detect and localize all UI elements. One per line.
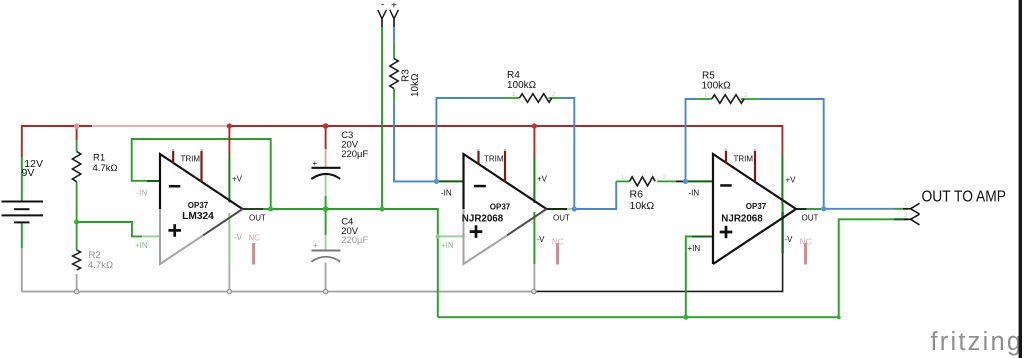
- wire op2 OUT to R6 blue: [574, 181, 616, 209]
- minus input symbol: [169, 185, 181, 188]
- svg-text:OUT TO AMP: OUT TO AMP: [922, 188, 1007, 205]
- svg-text:-V: -V: [537, 235, 546, 244]
- svg-text:+V: +V: [537, 175, 548, 184]
- svg-text:NC: NC: [800, 238, 812, 247]
- svg-text:10kΩ: 10kΩ: [410, 73, 421, 97]
- wire C4 bottom gray: [325, 263, 327, 292]
- wire op1 +V: [228, 126, 230, 156]
- wire R2 bottom lead gray: [76, 274, 78, 292]
- node op2 +V on red bus: [532, 123, 537, 128]
- wire minus connector pin down to out line: [381, 19, 383, 27]
- resistor R5: [712, 95, 744, 104]
- wire ground gray bus: [22, 291, 534, 293]
- node op3 -IN blue: [683, 179, 688, 184]
- svg-text:4.7kΩ: 4.7kΩ: [88, 260, 113, 271]
- node ground op2 -V (open gray): [532, 289, 536, 293]
- wire ground black segment to op3 -V: [533, 254, 782, 292]
- node lower bus op3 +IN: [683, 315, 688, 320]
- wire op3 -V dark green stub: [781, 212, 783, 254]
- node ground op1 -V (open gray): [227, 289, 231, 293]
- svg-text:10kΩ: 10kΩ: [630, 200, 655, 212]
- svg-text:R1: R1: [93, 152, 105, 163]
- wire op2 OUT stub: [547, 208, 568, 210]
- resistor R3: [390, 59, 398, 89]
- op-amp U3 NJR2068: [688, 149, 819, 265]
- svg-text:-IN: -IN: [689, 189, 700, 198]
- svg-text:TRIM: TRIM: [484, 155, 504, 164]
- wire op1 -V: [228, 213, 230, 264]
- svg-text:TRIM: TRIM: [181, 155, 201, 164]
- op1 +IN pin stub: [142, 235, 161, 237]
- node R1 bottom green: [74, 220, 79, 225]
- wire battery positive green segment: [21, 157, 23, 201]
- wire lower green bus: [438, 316, 839, 318]
- wire battery negative: [21, 223, 23, 248]
- battery label 12V 9V: [22, 158, 43, 179]
- wire op3 +V green segment: [781, 155, 783, 204]
- resistor R2: [73, 250, 81, 270]
- right edge border bar: [1019, 0, 1022, 358]
- svg-text:OUT: OUT: [249, 214, 266, 223]
- resistor R6: [630, 177, 656, 186]
- wire pin2 green to lower bus: [839, 219, 908, 317]
- plus input symbol: [168, 224, 181, 237]
- node R1 top (pale): [74, 123, 79, 128]
- R5 pin numbers: [704, 93, 748, 99]
- node C3/C4: [323, 206, 329, 212]
- svg-text:+V: +V: [786, 176, 797, 185]
- wire R1 leads green: [76, 141, 78, 152]
- op2 +IN pin stub: [438, 235, 464, 237]
- wire op3 OUT to pin1 blue: [824, 208, 894, 210]
- svg-text:+V: +V: [232, 175, 243, 184]
- wire R6 leads: [616, 180, 629, 182]
- resistor R4: [519, 94, 551, 103]
- svg-text:fritzing: fritzing: [931, 328, 1024, 356]
- wire red bus pale highlighted segment R1 to op1: [92, 125, 227, 127]
- svg-text:-: -: [381, 0, 384, 11]
- R6 pin numbers: [621, 175, 667, 181]
- svg-text:-IN: -IN: [441, 189, 452, 198]
- node ground R2 (open gray): [74, 289, 78, 293]
- svg-text:OUT: OUT: [802, 214, 819, 223]
- svg-text:100kΩ: 100kΩ: [702, 81, 732, 92]
- svg-text:LM324: LM324: [182, 211, 214, 222]
- svg-text:4.7kΩ: 4.7kΩ: [93, 163, 118, 174]
- wire R2 top lead: [76, 222, 78, 250]
- wire plus connector pin to R3: [393, 19, 395, 27]
- node lower bus corner: [837, 315, 841, 319]
- wire C3 bottom: [325, 174, 327, 196]
- node op2 +IN (light): [435, 234, 440, 239]
- node op3 OUT blue: [821, 206, 826, 211]
- svg-text:-V: -V: [785, 235, 794, 244]
- svg-text:+: +: [391, 1, 397, 12]
- svg-text:OUT: OUT: [553, 214, 570, 223]
- svg-text:220µF: 220µF: [341, 149, 368, 160]
- op-amp U2 NJR2068: [441, 149, 570, 265]
- resistor R1: [72, 152, 80, 182]
- wire op1 feedback OUT to -IN green: [132, 139, 271, 209]
- wire op1 OUT black stub: [243, 208, 264, 210]
- wire C4 top: [325, 209, 327, 235]
- svg-text:+IN: +IN: [441, 241, 454, 250]
- wire C3 top red: [325, 126, 327, 149]
- svg-text:NJR2068: NJR2068: [721, 214, 763, 225]
- svg-text:220µF: 220µF: [341, 235, 368, 246]
- svg-text:OP37: OP37: [490, 202, 511, 211]
- wire R3 bottom blue to op2 -IN: [393, 89, 395, 102]
- svg-text:100kΩ: 100kΩ: [507, 80, 537, 91]
- svg-text:OP37: OP37: [188, 201, 209, 210]
- battery BAT1: [2, 202, 44, 223]
- node op2 OUT blue: [572, 206, 577, 211]
- svg-text:+: +: [313, 159, 318, 168]
- svg-text:+: +: [313, 241, 318, 250]
- node minus connector to out line: [380, 207, 385, 212]
- capacitor C4: [311, 216, 368, 261]
- connector pin1 stub green: [894, 208, 908, 210]
- capacitor C3: [311, 130, 368, 179]
- TRIM pin stubs: [172, 149, 174, 151]
- wire op3 +IN riser green: [686, 237, 714, 318]
- NC pin stub: [252, 243, 255, 265]
- svg-text:TRIM: TRIM: [734, 155, 754, 164]
- R4 pin numbers: [512, 92, 556, 98]
- node C3 top on red bus: [323, 123, 329, 129]
- wire op3 tip pass-through green: [782, 204, 784, 214]
- wire R5 feedback blue: [686, 99, 698, 181]
- connector pin2 stub dark green: [894, 218, 908, 220]
- svg-text:NJR2068: NJR2068: [462, 214, 504, 225]
- node op1 +V on red bus: [227, 123, 232, 128]
- wire op2 +V: [533, 126, 535, 157]
- connector pin numbers: [904, 202, 908, 219]
- connector J1 battery input pins: [378, 10, 399, 19]
- wire op2 -V: [533, 212, 535, 264]
- svg-text:OP37: OP37: [746, 202, 767, 211]
- wire node R1/R2/+IN green: [77, 222, 142, 236]
- svg-text:+IN: +IN: [135, 241, 148, 250]
- svg-text:R6: R6: [630, 189, 644, 201]
- node ground C4 (open gray): [323, 289, 327, 293]
- svg-text:NC: NC: [552, 238, 564, 247]
- op1 -IN pin stub: [147, 180, 161, 182]
- svg-text:+IN: +IN: [688, 244, 701, 253]
- svg-text:9V: 9V: [22, 167, 35, 179]
- wire R1 top red: [76, 126, 78, 141]
- op3 -IN pin stub: [686, 180, 714, 182]
- wire op1 OUT line green: [263, 209, 438, 317]
- op-amp U1 LM324: [135, 149, 266, 265]
- op3 +IN pin stub: [692, 236, 713, 238]
- node op1 OUT: [268, 207, 273, 212]
- svg-text:NC: NC: [249, 234, 261, 243]
- svg-text:-V: -V: [234, 233, 243, 242]
- connector OUT TO AMP pins: [903, 203, 920, 224]
- op2 -IN pin stub: [436, 180, 464, 182]
- wire V+ red bus: [22, 126, 783, 157]
- node op2 -IN blue: [434, 179, 439, 184]
- wire R4 feedback blue: [436, 98, 502, 181]
- svg-text:-IN: -IN: [137, 189, 148, 198]
- wire op3 OUT stub: [796, 208, 807, 210]
